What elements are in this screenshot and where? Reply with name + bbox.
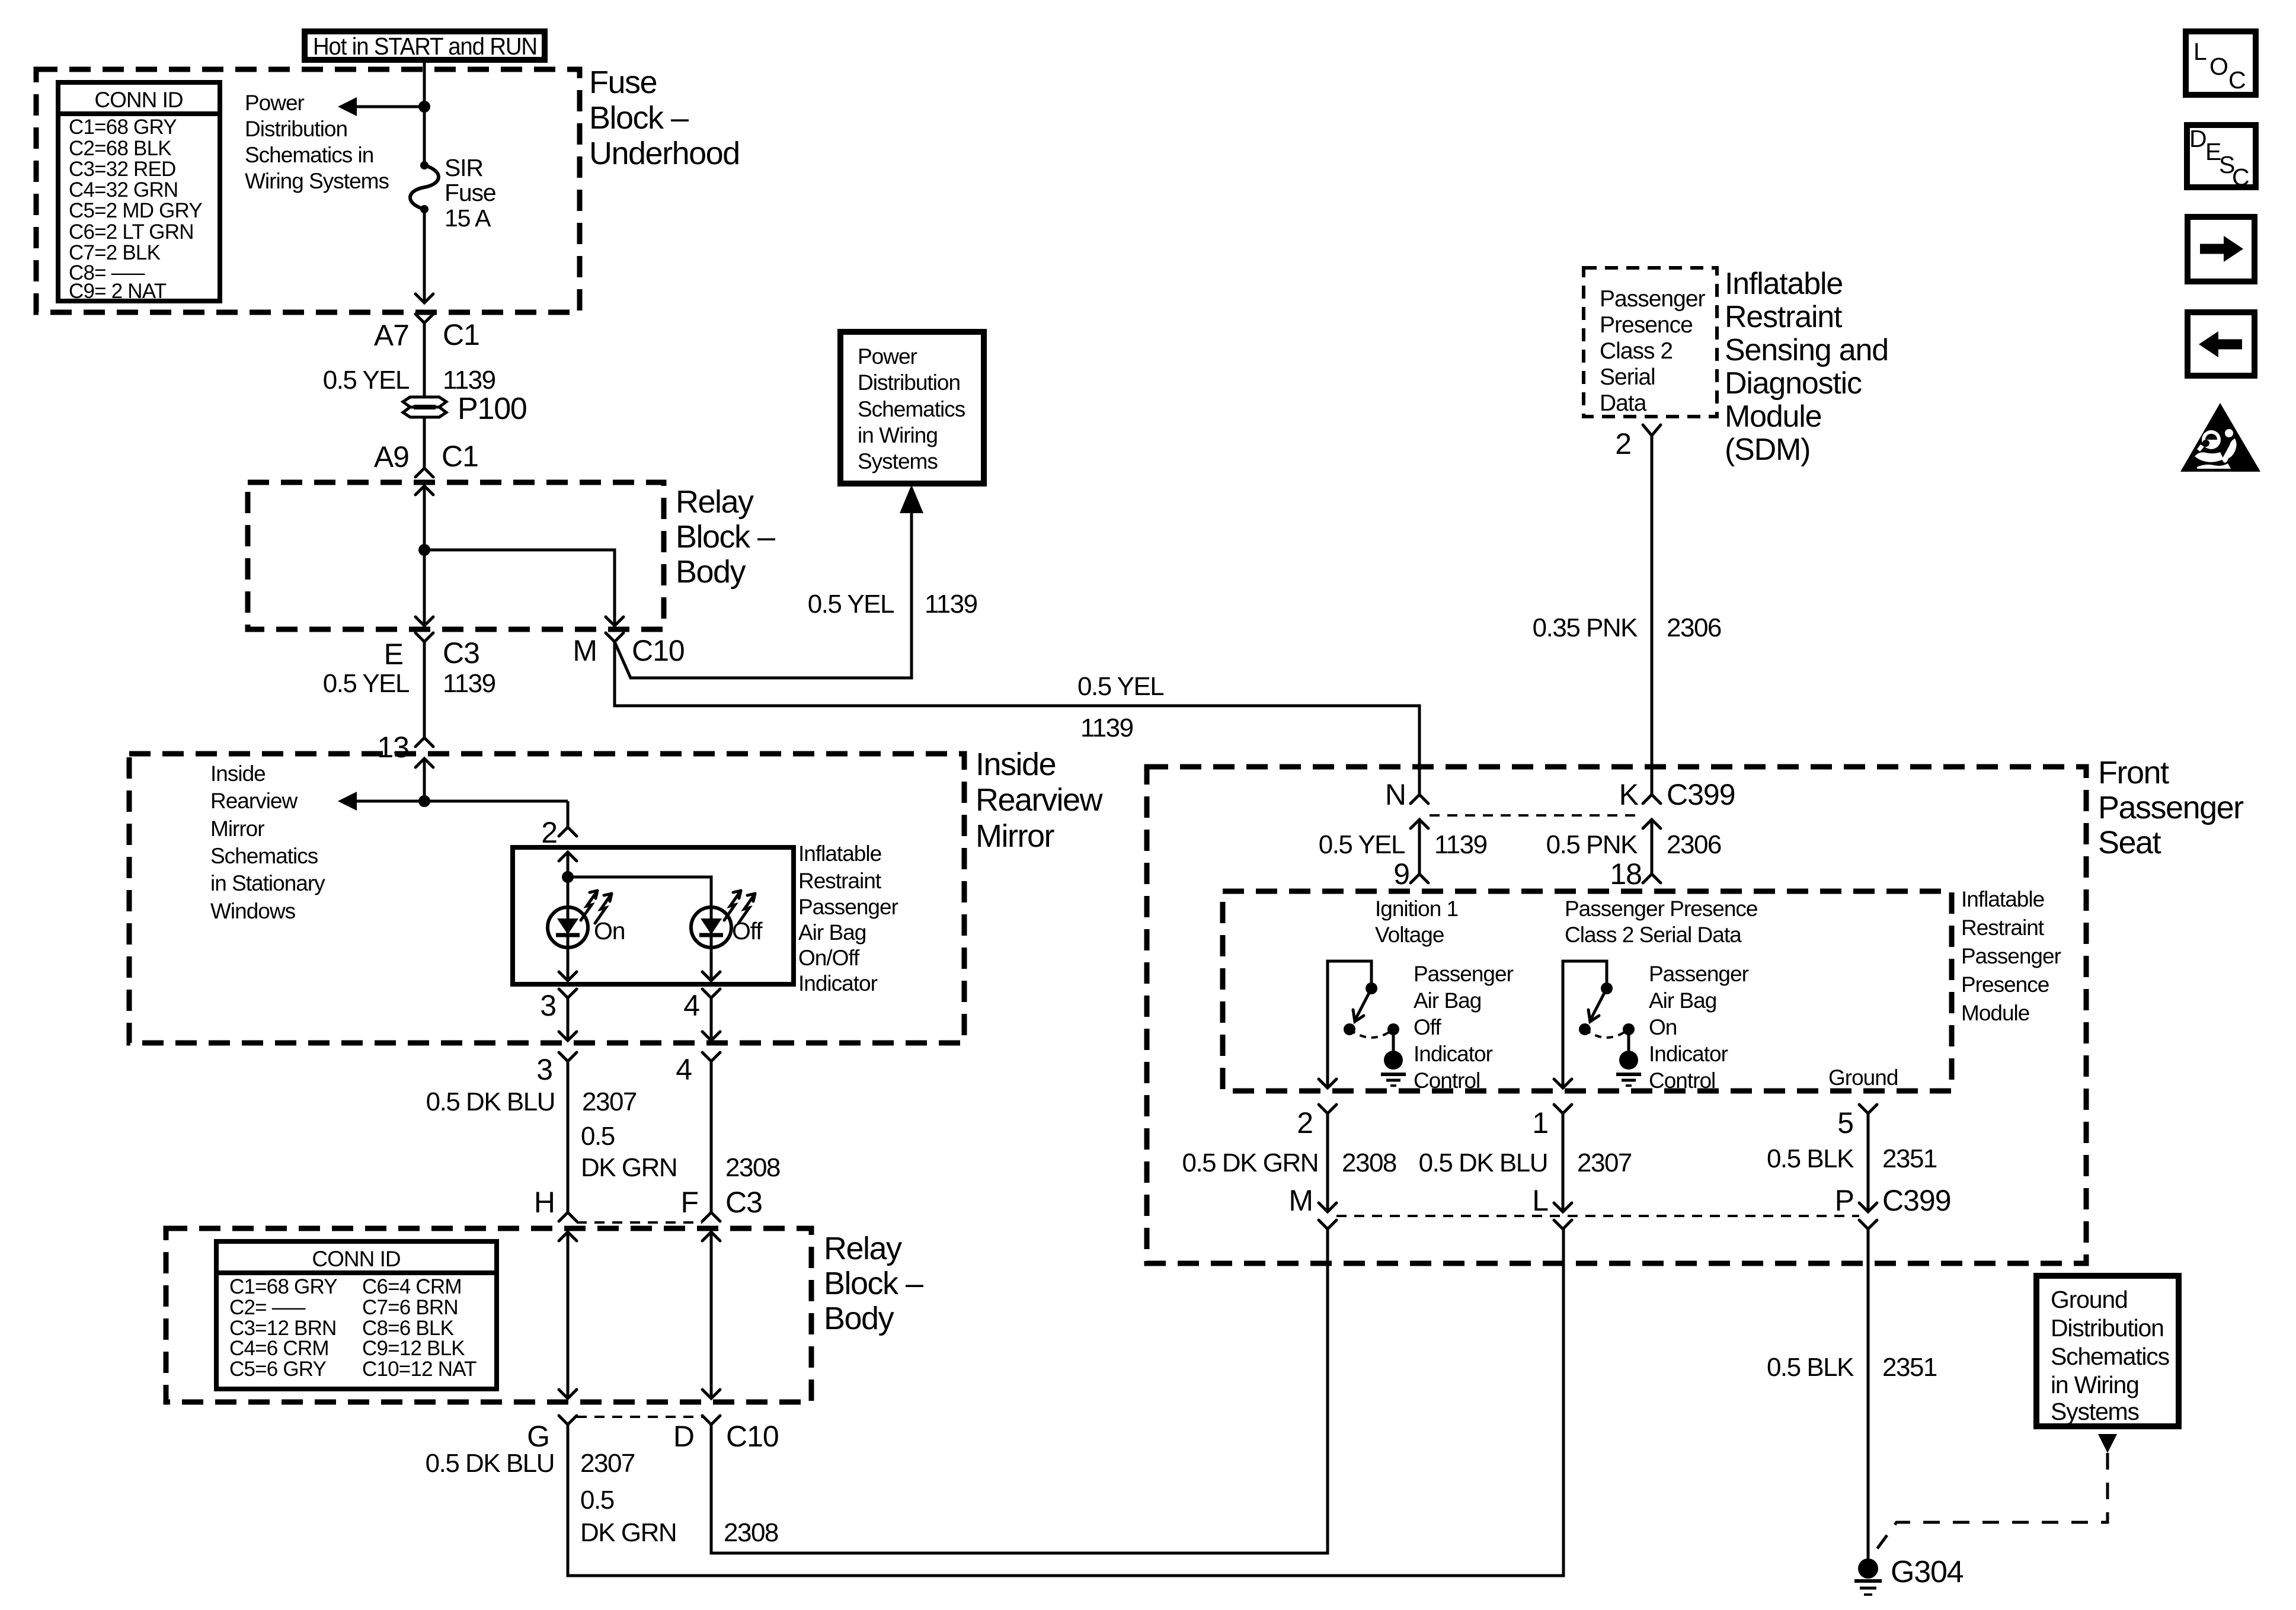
label SIR Fuse 15 A bbox=[445, 154, 495, 232]
svg-text:2307: 2307 bbox=[580, 1449, 635, 1478]
svg-text:1: 1 bbox=[1532, 1106, 1548, 1140]
svg-text:Class 2 Serial Data: Class 2 Serial Data bbox=[1565, 923, 1742, 947]
indicator box (solid) bbox=[513, 847, 794, 984]
svg-text:Class 2: Class 2 bbox=[1600, 338, 1673, 364]
wire M to power distribution (horizontal then up) bbox=[615, 511, 912, 678]
inside rearview mirror dashed box bbox=[129, 754, 964, 1043]
svg-text:G: G bbox=[527, 1420, 549, 1453]
svg-text:Distribution: Distribution bbox=[2051, 1314, 2164, 1342]
svg-text:M: M bbox=[573, 634, 597, 667]
svg-text:On: On bbox=[1649, 1015, 1677, 1039]
svg-text:(SDM): (SDM) bbox=[1725, 433, 1810, 467]
connector 2 at indicator box (chevron pair up) bbox=[559, 827, 577, 836]
connector K (C399 chevron pair up) bbox=[1643, 795, 1661, 804]
svg-text:2307: 2307 bbox=[582, 1087, 637, 1116]
connector D below relay block 2 bbox=[702, 1416, 720, 1425]
svg-text:A7: A7 bbox=[374, 319, 409, 352]
svg-text:2306: 2306 bbox=[1667, 830, 1721, 859]
svg-text:5: 5 bbox=[1837, 1106, 1853, 1140]
icon arrow right bbox=[2188, 217, 2255, 281]
svg-text:CONN ID: CONN ID bbox=[312, 1247, 400, 1271]
svg-text:Seat: Seat bbox=[2098, 825, 2161, 860]
svg-text:C5=2 MD GRY: C5=2 MD GRY bbox=[69, 199, 202, 222]
svg-text:Air Bag: Air Bag bbox=[798, 920, 866, 945]
svg-text:E: E bbox=[384, 638, 403, 671]
svg-text:0.5 DK GRN: 0.5 DK GRN bbox=[1182, 1148, 1318, 1177]
svg-text:C3: C3 bbox=[443, 636, 479, 670]
svg-text:Air Bag: Air Bag bbox=[1414, 988, 1481, 1013]
svg-text:F: F bbox=[680, 1186, 698, 1219]
svg-text:Rearview: Rearview bbox=[976, 782, 1104, 818]
arrowhead down at E inside box bbox=[415, 617, 433, 626]
inflatable restraint passenger presence module dashed box bbox=[1223, 891, 1952, 1091]
svg-text:Passenger: Passenger bbox=[1649, 962, 1749, 986]
wire 13 into mirror box bbox=[423, 758, 426, 801]
label Inflatable Restraint Passenger Air Bag On/Off Indicator bbox=[798, 841, 898, 996]
svg-text:Mirror: Mirror bbox=[976, 818, 1054, 854]
svg-text:C2= –––: C2= ––– bbox=[229, 1296, 306, 1319]
svg-text:Passenger: Passenger bbox=[1600, 286, 1705, 312]
svg-text:C2=68 BLK: C2=68 BLK bbox=[69, 137, 171, 160]
text power distribution schematics (fuse block) bbox=[245, 91, 389, 193]
svg-text:Ground: Ground bbox=[1828, 1065, 1898, 1090]
svg-text:0.5 YEL: 0.5 YEL bbox=[808, 590, 894, 619]
fuse SIR 15A symbol bbox=[410, 161, 439, 213]
svg-text:CONN ID: CONN ID bbox=[94, 88, 183, 112]
svg-text:1139: 1139 bbox=[925, 590, 977, 619]
svg-text:Data: Data bbox=[1600, 391, 1647, 416]
svg-text:D: D bbox=[673, 1420, 694, 1453]
svg-text:15 A: 15 A bbox=[445, 204, 491, 232]
LED On bbox=[548, 907, 588, 948]
wire branch to M bbox=[424, 550, 615, 626]
arrowhead down at M inside box bbox=[606, 617, 623, 626]
svg-text:Fuse: Fuse bbox=[445, 179, 495, 206]
svg-text:2307: 2307 bbox=[1577, 1148, 1632, 1177]
svg-text:1139: 1139 bbox=[1434, 830, 1487, 859]
svg-text:K: K bbox=[1619, 778, 1639, 811]
svg-text:Ignition 1: Ignition 1 bbox=[1375, 897, 1458, 921]
svg-text:Schematics: Schematics bbox=[858, 397, 965, 421]
svg-text:C10: C10 bbox=[632, 634, 685, 667]
svg-text:P100: P100 bbox=[458, 392, 527, 426]
wire 4 down to mirror box edge bbox=[710, 998, 713, 1041]
pin 1 below PPM bbox=[1554, 1105, 1572, 1113]
connector L (C399) bbox=[1554, 1203, 1572, 1212]
svg-text:L: L bbox=[1532, 1184, 1548, 1217]
svg-text:C9=12 BLK: C9=12 BLK bbox=[362, 1337, 465, 1360]
icon SIR warning triangle (airbag) bbox=[2180, 403, 2260, 472]
svg-text:DK GRN: DK GRN bbox=[580, 1518, 676, 1547]
svg-text:Relay: Relay bbox=[676, 484, 754, 520]
svg-text:G304: G304 bbox=[1891, 1555, 1964, 1589]
wire G long run to L bbox=[568, 1229, 1563, 1576]
arrow to mirror schematics (left) bbox=[338, 792, 357, 811]
label Inside Rearview Mirror (outside) bbox=[976, 747, 1104, 854]
fuse block underhood dashed box bbox=[36, 69, 580, 312]
svg-text:Indicator: Indicator bbox=[1414, 1042, 1493, 1066]
svg-text:Mirror: Mirror bbox=[210, 817, 264, 841]
svg-text:O: O bbox=[2209, 53, 2228, 80]
thin dashed connector line H-F bbox=[577, 1221, 702, 1224]
svg-text:Control: Control bbox=[1649, 1068, 1715, 1093]
svg-text:Off: Off bbox=[1414, 1015, 1441, 1039]
icon arrow left bbox=[2188, 312, 2255, 376]
svg-text:0.5 BLK: 0.5 BLK bbox=[1767, 1144, 1854, 1173]
svg-text:Passenger: Passenger bbox=[1961, 944, 2061, 968]
svg-text:Relay: Relay bbox=[824, 1231, 902, 1266]
icon LOC bbox=[2186, 31, 2256, 95]
thin dashed connector line G-D bbox=[577, 1416, 702, 1418]
svg-text:L: L bbox=[2193, 38, 2207, 65]
lightning arrows On bbox=[581, 891, 612, 923]
svg-text:D: D bbox=[2189, 125, 2206, 152]
pin 9 chevron at PPM edge bbox=[1411, 874, 1428, 883]
svg-text:Body: Body bbox=[676, 554, 746, 590]
wire 4 down to F bbox=[710, 1061, 713, 1212]
wire A7 to P100 bbox=[423, 323, 426, 398]
label Front Passenger Seat bbox=[2098, 755, 2244, 860]
label Passenger Air Bag On Indicator Control bbox=[1649, 962, 1749, 1093]
connector 4 below indicator box bbox=[702, 989, 720, 998]
svg-text:C9= 2 NAT: C9= 2 NAT bbox=[69, 280, 167, 303]
connector 3 below indicator box bbox=[559, 989, 577, 998]
svg-text:Passenger: Passenger bbox=[1414, 962, 1514, 986]
connector M C10 (chevron below box) bbox=[606, 633, 623, 642]
LED Off bbox=[691, 907, 731, 948]
svg-text:DK GRN: DK GRN bbox=[581, 1153, 677, 1182]
svg-text:C: C bbox=[2232, 164, 2249, 191]
thin dashed connector line N-K bbox=[1430, 814, 1642, 817]
hot-in-start-and-run box bbox=[305, 31, 545, 60]
wire K to pin 18 bbox=[1651, 820, 1654, 874]
svg-text:C1: C1 bbox=[442, 440, 478, 473]
svg-text:0.35 PNK: 0.35 PNK bbox=[1533, 613, 1638, 642]
svg-text:Module: Module bbox=[1961, 1001, 2029, 1025]
front passenger seat dashed box bbox=[1147, 767, 2086, 1263]
label Relay Block Body (bottom) bbox=[824, 1231, 923, 1336]
svg-text:A9: A9 bbox=[374, 440, 409, 473]
svg-text:SIR: SIR bbox=[445, 154, 483, 181]
wire fuse to connector A7 bbox=[423, 209, 426, 303]
svg-text:Restraint: Restraint bbox=[798, 869, 882, 893]
svg-text:0.5 YEL: 0.5 YEL bbox=[323, 669, 410, 698]
svg-text:Power: Power bbox=[245, 91, 305, 115]
wire F inside relay block 2 bbox=[710, 1232, 713, 1398]
svg-text:Air Bag: Air Bag bbox=[1649, 988, 1716, 1013]
wire inside relay block (main vertical) bbox=[423, 486, 426, 626]
svg-text:C: C bbox=[2228, 66, 2246, 94]
switch 2 (passenger air bag on indicator control) bbox=[1554, 961, 1641, 1088]
svg-text:0.5 PNK: 0.5 PNK bbox=[1546, 830, 1638, 859]
ground G304 bbox=[1854, 1558, 1882, 1595]
svg-text:2308: 2308 bbox=[725, 1153, 780, 1182]
svg-text:18: 18 bbox=[1610, 857, 1642, 891]
svg-text:3: 3 bbox=[540, 989, 556, 1022]
svg-text:Control: Control bbox=[1414, 1068, 1480, 1093]
connector F (chevron pair into relay block 2) bbox=[702, 1212, 720, 1221]
junction dot mirror bbox=[418, 795, 430, 807]
svg-text:0.5 DK BLU: 0.5 DK BLU bbox=[426, 1087, 555, 1116]
wire from hot box down bbox=[423, 60, 426, 165]
svg-text:2308: 2308 bbox=[724, 1518, 778, 1547]
terminal 2 of SDM bbox=[1643, 425, 1661, 436]
svg-text:2351: 2351 bbox=[1882, 1144, 1937, 1173]
svg-text:2: 2 bbox=[541, 816, 557, 849]
svg-text:1139: 1139 bbox=[443, 669, 495, 698]
connector A7 C1 (chevron pair down) bbox=[415, 294, 433, 303]
svg-text:Ground: Ground bbox=[2051, 1286, 2128, 1313]
connector N (C399 chevron pair up) bbox=[1411, 795, 1428, 804]
svg-text:Wiring Systems: Wiring Systems bbox=[245, 169, 389, 193]
svg-text:0.5: 0.5 bbox=[580, 1486, 614, 1515]
svg-text:2: 2 bbox=[1297, 1106, 1313, 1140]
svg-text:Module: Module bbox=[1725, 399, 1821, 434]
wire D long run to M bbox=[711, 1229, 1328, 1553]
wire pin2 into box, junction bbox=[567, 852, 570, 907]
svg-text:Distribution: Distribution bbox=[245, 117, 347, 141]
wire H inside relay block 2 bbox=[567, 1232, 570, 1398]
svg-text:Systems: Systems bbox=[2051, 1398, 2139, 1425]
connector 3 below mirror box bbox=[559, 1052, 577, 1061]
svg-text:Indicator: Indicator bbox=[798, 971, 878, 996]
connector G below relay block 2 bbox=[559, 1416, 577, 1425]
svg-text:2308: 2308 bbox=[1342, 1148, 1396, 1177]
svg-text:Distribution: Distribution bbox=[858, 370, 960, 395]
connector A9 C1 (chevron pair up) bbox=[415, 468, 433, 477]
connector M (C399) bbox=[1319, 1203, 1336, 1212]
svg-text:C1=68 GRY: C1=68 GRY bbox=[229, 1275, 337, 1298]
svg-text:Inside: Inside bbox=[976, 747, 1056, 782]
svg-text:Power: Power bbox=[858, 344, 917, 369]
arrow into power distribution box bbox=[900, 485, 923, 513]
svg-text:Schematics: Schematics bbox=[210, 844, 318, 868]
svg-text:Restraint: Restraint bbox=[1725, 300, 1843, 334]
svg-text:Passenger: Passenger bbox=[798, 895, 898, 919]
arrow from ground distribution box (down triangle) bbox=[2098, 1434, 2117, 1453]
connector H (chevron pair into relay block 2) bbox=[559, 1212, 577, 1221]
wire N to pin 9 bbox=[1418, 820, 1421, 874]
CONN ID table (fuse block) bbox=[58, 82, 220, 303]
svg-text:Presence: Presence bbox=[1961, 972, 2049, 997]
svg-text:Inflatable: Inflatable bbox=[798, 841, 881, 866]
svg-text:1139: 1139 bbox=[443, 366, 495, 395]
svg-text:C399: C399 bbox=[1667, 778, 1735, 811]
svg-text:C6=4 CRM: C6=4 CRM bbox=[362, 1275, 462, 1298]
arrow to power distribution (left) bbox=[354, 105, 424, 108]
switch 1 (passenger air bag off indicator control) bbox=[1319, 961, 1406, 1088]
power distribution schematics box bbox=[840, 332, 984, 484]
svg-text:Body: Body bbox=[824, 1301, 894, 1336]
svg-text:Fuse: Fuse bbox=[589, 65, 657, 100]
svg-text:0.5 YEL: 0.5 YEL bbox=[323, 366, 410, 395]
svg-text:0.5: 0.5 bbox=[581, 1122, 615, 1151]
label Relay Block Body (top) bbox=[676, 484, 775, 590]
svg-text:C4=32 GRN: C4=32 GRN bbox=[69, 178, 178, 201]
svg-text:Front: Front bbox=[2098, 755, 2169, 790]
SDM dashed box (passenger presence class 2 serial data) bbox=[1584, 268, 1717, 417]
text inside rearview mirror schematics bbox=[210, 761, 325, 923]
svg-text:in Stationary: in Stationary bbox=[210, 871, 325, 895]
label Inflatable Restraint Sensing and Diagnostic Module (SDM) bbox=[1725, 267, 1888, 467]
pin 5 below PPM bbox=[1859, 1105, 1877, 1113]
splice P100 symbol bbox=[403, 397, 446, 417]
svg-text:C3=32 RED: C3=32 RED bbox=[69, 158, 176, 181]
label Passenger Air Bag Off Indicator Control bbox=[1414, 962, 1514, 1093]
svg-text:Indicator: Indicator bbox=[1649, 1042, 1728, 1066]
svg-text:Systems: Systems bbox=[858, 449, 938, 473]
svg-text:Block –: Block – bbox=[824, 1266, 923, 1301]
svg-text:Hot in START and RUN: Hot in START and RUN bbox=[313, 33, 537, 60]
svg-text:Schematics: Schematics bbox=[2051, 1343, 2170, 1370]
connector 13 at mirror box edge (chevron pair up) bbox=[415, 738, 433, 747]
svg-text:M: M bbox=[1288, 1184, 1313, 1217]
thin dashed connector line M-L-P bbox=[1336, 1215, 1859, 1217]
svg-text:Windows: Windows bbox=[210, 899, 296, 923]
svg-text:0.5 YEL: 0.5 YEL bbox=[1077, 672, 1164, 701]
svg-text:H: H bbox=[534, 1186, 555, 1219]
svg-text:C4=6 CRM: C4=6 CRM bbox=[229, 1337, 329, 1360]
svg-text:4: 4 bbox=[676, 1053, 692, 1086]
svg-text:C3: C3 bbox=[725, 1186, 762, 1219]
pin 18 chevron at PPM edge bbox=[1643, 874, 1661, 883]
svg-text:2: 2 bbox=[1615, 427, 1631, 460]
svg-text:N: N bbox=[1385, 778, 1406, 811]
svg-text:Inside: Inside bbox=[210, 761, 266, 786]
svg-text:Block –: Block – bbox=[676, 519, 775, 555]
wire 3 down to mirror box edge bbox=[567, 998, 570, 1041]
svg-text:C10=12 NAT: C10=12 NAT bbox=[362, 1358, 477, 1381]
svg-text:C5=6 GRY: C5=6 GRY bbox=[229, 1358, 327, 1381]
svg-text:13: 13 bbox=[377, 731, 409, 764]
svg-text:Inflatable: Inflatable bbox=[1961, 887, 2044, 911]
svg-text:Serial: Serial bbox=[1600, 364, 1655, 390]
wire 3 down to H bbox=[567, 1061, 570, 1212]
connector 4 below mirror box bbox=[702, 1052, 720, 1061]
long wire M to front passenger seat (0.5 YEL 1139) bbox=[615, 642, 1419, 795]
svg-text:P: P bbox=[1835, 1184, 1854, 1217]
svg-text:1139: 1139 bbox=[1080, 713, 1133, 742]
wire On led down to box edge bbox=[567, 948, 570, 981]
svg-text:C10: C10 bbox=[726, 1420, 779, 1453]
svg-text:in Wiring: in Wiring bbox=[858, 423, 938, 447]
svg-text:0.5 DK BLU: 0.5 DK BLU bbox=[426, 1449, 554, 1478]
wire P100 to A9 bbox=[423, 417, 426, 468]
relay block body dashed box (top) bbox=[248, 482, 664, 629]
connector E C3 (chevron below box) bbox=[415, 633, 433, 642]
svg-text:Off: Off bbox=[732, 917, 763, 945]
svg-text:Block –: Block – bbox=[589, 100, 689, 136]
icon DESC bbox=[2187, 125, 2256, 191]
svg-text:On/Off: On/Off bbox=[798, 946, 860, 970]
wire horizontal in mirror box bbox=[354, 800, 568, 803]
ground distribution schematics box bbox=[2036, 1276, 2179, 1426]
wire Off led down to box edge bbox=[710, 948, 713, 981]
svg-text:Schematics in: Schematics in bbox=[245, 143, 373, 167]
junction dot bbox=[418, 101, 430, 113]
svg-text:0.5 YEL: 0.5 YEL bbox=[1319, 830, 1405, 859]
svg-text:4: 4 bbox=[683, 989, 699, 1022]
svg-text:Presence: Presence bbox=[1600, 312, 1693, 338]
pin 2 below PPM bbox=[1319, 1105, 1336, 1113]
lightning arrows Off bbox=[724, 891, 755, 923]
label Inflatable Restraint Passenger Presence Module bbox=[1961, 887, 2061, 1025]
svg-text:3: 3 bbox=[536, 1053, 552, 1086]
wire E down to 13 bbox=[423, 642, 426, 738]
wire down to indicator pin 2 bbox=[567, 801, 570, 827]
svg-text:C1: C1 bbox=[443, 318, 479, 351]
svg-text:Passenger Presence: Passenger Presence bbox=[1565, 897, 1757, 921]
wire SDM pin2 down to K (0.35 PNK 2306) bbox=[1651, 436, 1654, 795]
svg-text:C6=2 LT GRN: C6=2 LT GRN bbox=[69, 220, 194, 244]
svg-text:Underhood: Underhood bbox=[589, 136, 740, 171]
svg-text:9: 9 bbox=[1393, 857, 1409, 891]
svg-text:0.5 BLK: 0.5 BLK bbox=[1767, 1353, 1854, 1382]
label Fuse Block Underhood bbox=[589, 65, 740, 171]
junction dot relay block bbox=[418, 544, 430, 556]
svg-text:Rearview: Rearview bbox=[210, 789, 298, 813]
dashed reference wire to G304 bbox=[1873, 1453, 2108, 1554]
svg-text:Voltage: Voltage bbox=[1375, 923, 1444, 947]
connector P (C399) bbox=[1859, 1203, 1877, 1212]
svg-text:in Wiring: in Wiring bbox=[2051, 1371, 2139, 1398]
relay block body dashed box (bottom) bbox=[166, 1228, 811, 1402]
svg-text:C399: C399 bbox=[1882, 1184, 1951, 1217]
svg-text:0.5 DK BLU: 0.5 DK BLU bbox=[1419, 1148, 1547, 1177]
svg-text:On: On bbox=[594, 917, 625, 945]
svg-text:2351: 2351 bbox=[1882, 1353, 1937, 1382]
wire pin5 down to G304 (0.5 BLK 2351) bbox=[1867, 1229, 1870, 1559]
svg-text:Sensing and: Sensing and bbox=[1725, 333, 1888, 367]
svg-text:Passenger: Passenger bbox=[2098, 790, 2244, 825]
svg-text:C1=68 GRY: C1=68 GRY bbox=[69, 116, 177, 139]
svg-text:Restraint: Restraint bbox=[1961, 916, 2045, 940]
svg-text:C7=6 BRN: C7=6 BRN bbox=[362, 1296, 458, 1319]
svg-text:Inflatable: Inflatable bbox=[1725, 267, 1843, 301]
CONN ID table (relay block 2) bbox=[216, 1241, 497, 1389]
svg-text:2306: 2306 bbox=[1667, 613, 1721, 642]
svg-text:Diagnostic: Diagnostic bbox=[1725, 366, 1862, 401]
wire branch to off led bbox=[568, 877, 711, 907]
